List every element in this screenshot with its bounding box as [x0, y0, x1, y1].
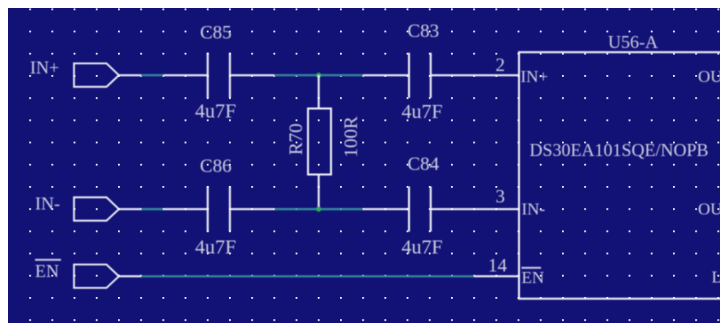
wire pin 3 — [431, 208, 519, 210]
svg-text:IN+: IN+ — [30, 58, 59, 78]
svg-text:2: 2 — [496, 55, 506, 76]
wire (net) — [141, 275, 474, 277]
svg-text:100R: 100R — [341, 116, 362, 158]
wire — [318, 75, 320, 108]
svg-text:IN-: IN- — [522, 200, 546, 219]
svg-text:IN-: IN- — [35, 194, 60, 214]
wire pin 2 — [431, 74, 519, 76]
label EN (overline) — [35, 260, 61, 281]
svg-text:IN+: IN+ — [521, 67, 549, 86]
wire — [363, 208, 409, 210]
svg-text:EN: EN — [35, 261, 59, 281]
wire — [119, 74, 141, 76]
svg-text:U56-A: U56-A — [608, 32, 658, 52]
wire — [119, 208, 141, 210]
capacitor C86 — [208, 187, 230, 232]
svg-text:4u7F: 4u7F — [402, 237, 443, 259]
wire — [318, 175, 320, 210]
svg-text:DS30EA101SQE/NOPB: DS30EA101SQE/NOPB — [530, 140, 709, 160]
svg-text:4u7F: 4u7F — [195, 101, 236, 123]
wire — [119, 275, 141, 277]
wire (net) — [274, 74, 363, 76]
capacitor C85 — [208, 53, 230, 98]
junction — [316, 73, 321, 78]
wire — [230, 74, 274, 76]
IC U56-A — [519, 52, 728, 299]
svg-text:R70: R70 — [286, 123, 307, 155]
svg-text:EN: EN — [522, 268, 545, 287]
capacitor C83 — [409, 53, 431, 98]
wire pin 14 — [474, 275, 519, 277]
svg-text:C85: C85 — [200, 23, 232, 44]
pin name EN (overline) — [522, 268, 545, 287]
wire (net) — [274, 208, 363, 210]
wire — [163, 74, 207, 76]
port EN — [74, 265, 119, 288]
port IN- — [74, 197, 119, 220]
capacitor C84 — [409, 187, 431, 232]
svg-text:C83: C83 — [408, 21, 440, 42]
wire — [163, 208, 207, 210]
svg-text:C84: C84 — [408, 154, 440, 175]
svg-text:4u7F: 4u7F — [195, 237, 236, 259]
wire (net) — [141, 208, 163, 210]
resistor R70 — [308, 109, 331, 175]
wire — [363, 74, 409, 76]
wire — [230, 208, 274, 210]
junction — [316, 207, 321, 212]
port IN+ — [74, 63, 119, 86]
svg-text:C86: C86 — [200, 156, 232, 177]
wire (net) — [141, 74, 163, 76]
svg-text:14: 14 — [488, 256, 508, 277]
svg-text:3: 3 — [496, 187, 506, 208]
svg-text:4u7F: 4u7F — [402, 101, 443, 123]
